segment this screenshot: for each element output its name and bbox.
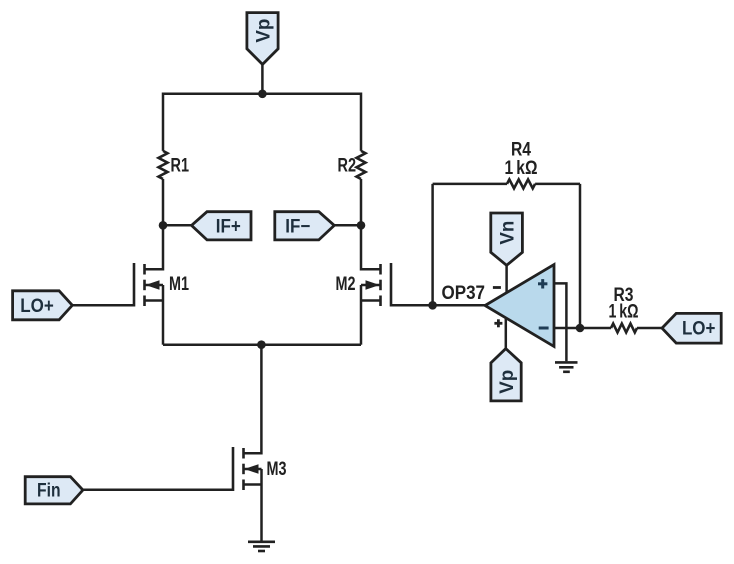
svg-text:IF−: IF− — [285, 217, 310, 238]
wire R3 to LO+ — [637, 327, 662, 330]
node flag Fin — [25, 477, 83, 504]
wire feedback left vertical — [431, 184, 434, 305]
wire M3 source/body down to ground — [260, 469, 263, 542]
wire Fin to M3 gate — [83, 489, 233, 492]
op-amp minus port mark (inside) — [539, 327, 549, 330]
node flag LO+ (left) — [13, 291, 73, 320]
resistor R4 — [507, 179, 535, 188]
op-amp U1 OP37 — [442, 265, 555, 347]
junction top rail — [258, 90, 267, 99]
op-amp plus port mark (inside) — [538, 279, 547, 288]
svg-text:R2: R2 — [338, 156, 357, 177]
transistor M3 — [233, 447, 287, 491]
junction feedback tap — [428, 301, 437, 310]
junction node IF+ — [159, 221, 168, 230]
wire M2 gate to op-amp output — [391, 304, 485, 307]
svg-text:R1: R1 — [171, 156, 190, 177]
svg-text:Vp: Vp — [497, 370, 518, 394]
power flag Vp (top) — [247, 13, 278, 65]
wire IF- stub — [334, 224, 361, 227]
wire top rail with drops to R1 and R2 — [163, 94, 361, 151]
wire Vp to top rail — [261, 64, 264, 93]
svg-text:1 kΩ: 1 kΩ — [609, 302, 639, 323]
svg-text:LO+: LO+ — [682, 319, 716, 340]
node flag LO+ (right) — [662, 313, 721, 343]
svg-text:Fin: Fin — [37, 481, 61, 502]
wire R2 bottom to M2 drain — [361, 179, 381, 269]
transistor M2 — [336, 263, 392, 307]
node flag IF- — [275, 212, 335, 240]
wire Vn to op-amp — [505, 265, 508, 293]
wire feedback top right — [535, 183, 580, 186]
transistor M1 — [134, 263, 189, 307]
svg-text:M2: M2 — [336, 274, 356, 295]
supply minus mark (outside) — [493, 286, 501, 289]
wire common rail to M3 drain — [244, 345, 262, 454]
junction output node — [576, 324, 585, 333]
wire feedback right vertical — [579, 184, 582, 328]
svg-text:Vp: Vp — [253, 19, 274, 43]
resistor R1 — [159, 151, 168, 179]
wire R1 bottom to M1 drain — [145, 179, 164, 269]
svg-text:M3: M3 — [267, 459, 287, 480]
svg-text:IF+: IF+ — [216, 217, 241, 238]
power flag Vn — [491, 213, 523, 265]
power flag Vp (bottom) — [491, 349, 521, 401]
wire feedback top left — [433, 183, 507, 186]
svg-text:1 kΩ: 1 kΩ — [505, 158, 538, 179]
supply plus mark (outside) — [494, 319, 502, 327]
ground (op-amp plus input) — [555, 362, 578, 371]
svg-text:LO+: LO+ — [20, 296, 54, 317]
svg-text:OP37: OP37 — [442, 283, 486, 304]
junction node IF- — [357, 221, 366, 230]
wire common source rail — [163, 343, 361, 346]
resistor R3 — [611, 324, 637, 333]
resistor R2 — [357, 151, 366, 179]
wire plus input to ground bracket — [554, 283, 566, 361]
wire output node to R3 — [580, 327, 611, 330]
node flag IF+ — [192, 212, 252, 240]
wire LO+ to M1 gate — [72, 304, 134, 307]
svg-text:M1: M1 — [169, 274, 189, 295]
wire IF+ stub — [163, 224, 192, 227]
junction common source — [257, 340, 266, 349]
wire M1 source/body down to common rail — [162, 285, 165, 345]
ground (M3 source) — [248, 542, 275, 551]
wire M2 source/body down to common rail — [360, 285, 363, 345]
wire Vp to op-amp — [505, 318, 508, 349]
svg-text:Vn: Vn — [497, 221, 518, 245]
wire minus input to output node — [554, 327, 580, 330]
